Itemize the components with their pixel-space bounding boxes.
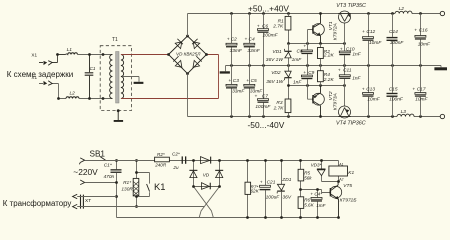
svg-text:+: + bbox=[412, 87, 415, 92]
svg-text:ZD1: ZD1 bbox=[281, 177, 291, 183]
svg-text:+: + bbox=[260, 180, 263, 185]
label R5 56k bbox=[304, 170, 312, 180]
label R6 5.6K bbox=[304, 198, 314, 208]
diode VD3* bbox=[317, 161, 326, 182]
label C17 10mF bbox=[412, 86, 428, 102]
label VT2 KT973A (vertical) bbox=[328, 91, 339, 110]
wire VD3 to relay coil node bbox=[322, 181, 339, 183]
label C4 33mF bbox=[245, 37, 261, 54]
label VD2 36V 1W bbox=[266, 70, 284, 85]
label C15 100nF bbox=[389, 86, 404, 102]
svg-text:C9: C9 bbox=[308, 70, 314, 76]
resistor R1* with X hatch bbox=[133, 161, 139, 207]
svg-text:240R: 240R bbox=[154, 162, 167, 167]
svg-text:C2: C2 bbox=[231, 37, 237, 43]
capacitor C11 bbox=[339, 66, 350, 86]
label C9 1mF bbox=[293, 70, 315, 85]
svg-text:33mF: 33mF bbox=[247, 48, 260, 54]
svg-text:XT: XT bbox=[85, 198, 91, 204]
transistor VT4 bbox=[338, 86, 350, 119]
inductor L1 bbox=[66, 53, 78, 55]
terminal output top bbox=[440, 11, 444, 15]
svg-text:2.2K: 2.2K bbox=[323, 52, 335, 58]
svg-text:К схеме задержки: К схеме задержки bbox=[7, 70, 73, 79]
svg-text:A2: A2 bbox=[338, 178, 343, 182]
svg-text:100mF: 100mF bbox=[255, 104, 271, 110]
junction dots left section bbox=[56, 53, 104, 100]
label C6 100mF bbox=[257, 23, 279, 38]
svg-text:C1*: C1* bbox=[104, 163, 112, 169]
label R7* 62K bbox=[251, 184, 260, 193]
diode VD left bbox=[189, 170, 197, 178]
svg-text:C5: C5 bbox=[251, 78, 257, 84]
wire bottom-left input to L2 bbox=[39, 84, 66, 99]
junction dots small bridge bbox=[192, 159, 221, 188]
label C11 1nF bbox=[338, 68, 362, 82]
wire 0V mid rail bbox=[226, 65, 442, 67]
capacitor C10 bbox=[339, 44, 350, 66]
svg-text:VD2: VD2 bbox=[271, 70, 281, 76]
svg-text:100mF: 100mF bbox=[263, 32, 279, 38]
svg-text:+: + bbox=[245, 38, 248, 43]
label C13.5 10mF bbox=[362, 86, 381, 102]
svg-text:+: + bbox=[362, 30, 365, 35]
wire node line positive bbox=[289, 43, 345, 45]
wire mains top bbox=[85, 160, 339, 162]
svg-text:2.7K: 2.7K bbox=[273, 105, 285, 111]
resistor R2 bbox=[318, 44, 324, 66]
svg-text:К трансформатору: К трансформатору bbox=[3, 199, 72, 208]
svg-text:62K: 62K bbox=[251, 189, 260, 194]
svg-text:+: + bbox=[340, 47, 343, 52]
svg-text:C12: C12 bbox=[366, 29, 375, 35]
svg-text:C7: C7 bbox=[262, 93, 268, 99]
zener diode VD1 bbox=[284, 44, 291, 66]
capacitor C5 bbox=[244, 66, 255, 117]
svg-text:+: + bbox=[362, 87, 365, 92]
node X1 label top bbox=[0, 0, 1, 1]
svg-text:100nF: 100nF bbox=[389, 96, 404, 102]
svg-text:-50...-40V: -50...-40V bbox=[248, 120, 285, 130]
capacitor C2 bbox=[226, 14, 237, 66]
wire top-left input to L1 bbox=[39, 55, 66, 63]
svg-text:L1: L1 bbox=[67, 47, 73, 53]
svg-text:36V: 36V bbox=[283, 194, 292, 200]
wire base node VT5 bbox=[301, 190, 330, 193]
label C5 33mF bbox=[246, 78, 263, 95]
svg-text:36V 1W: 36V 1W bbox=[266, 57, 284, 63]
transistor VT3 bbox=[338, 11, 351, 44]
transistor VT2 bbox=[308, 86, 325, 117]
transformer T1 dashed box bbox=[100, 46, 131, 111]
capacitor C14 bbox=[387, 14, 398, 66]
svg-text:+: + bbox=[303, 45, 306, 50]
label C8 1mF bbox=[292, 45, 307, 63]
label R3 2.7K bbox=[273, 100, 285, 111]
connector XT bbox=[73, 194, 205, 209]
label C10 1nF bbox=[340, 46, 362, 57]
svg-text:10mF: 10mF bbox=[415, 97, 428, 103]
ground (transformer center tap) bbox=[134, 82, 144, 84]
svg-text:130R: 130R bbox=[121, 186, 133, 192]
svg-text:1nF: 1nF bbox=[352, 51, 361, 57]
capacitor C13.5 bbox=[363, 66, 374, 117]
resistor R3 bbox=[285, 86, 291, 117]
svg-text:1mF: 1mF bbox=[316, 203, 326, 208]
ground (transformer screen) bbox=[114, 109, 123, 122]
wire bridge plus to top rail bbox=[187, 14, 189, 37]
svg-text:R2*: R2* bbox=[157, 152, 165, 157]
junction dots mid rail bbox=[230, 64, 422, 67]
svg-text:1nF: 1nF bbox=[352, 76, 361, 82]
svg-text:VD1: VD1 bbox=[272, 49, 282, 55]
svg-text:+: + bbox=[414, 29, 417, 34]
svg-text:VT4 TIP36C: VT4 TIP36C bbox=[336, 121, 366, 127]
terminal output bottom bbox=[440, 114, 444, 118]
inductor L3 output bottom bbox=[397, 113, 414, 120]
svg-text:100uF: 100uF bbox=[266, 194, 281, 200]
inductor L2 output top bbox=[395, 10, 412, 17]
bridge diode lower-left bbox=[173, 56, 182, 67]
svg-text:L2: L2 bbox=[70, 91, 76, 97]
wire +50V top rail bbox=[188, 13, 441, 15]
svg-text:+: + bbox=[257, 24, 260, 29]
label C1* 470n bbox=[104, 163, 115, 181]
svg-text:C15: C15 bbox=[389, 86, 398, 92]
svg-text:K1: K1 bbox=[348, 170, 354, 176]
svg-text:+50...+40V: +50...+40V bbox=[248, 4, 289, 14]
resistor R6 bbox=[298, 190, 304, 218]
svg-text:C3: C3 bbox=[233, 78, 239, 84]
svg-text:C1: C1 bbox=[90, 66, 96, 71]
svg-text:470n: 470n bbox=[104, 174, 115, 180]
svg-text:C16: C16 bbox=[419, 28, 428, 34]
svg-text:+: + bbox=[255, 94, 258, 99]
capacitor C17 bbox=[415, 66, 426, 117]
svg-text:+: + bbox=[246, 79, 249, 84]
bridge diode upper-right bbox=[192, 39, 200, 49]
svg-text:5.6K: 5.6K bbox=[304, 203, 314, 208]
resistor R2* bbox=[89, 157, 182, 162]
zener diode VD2 bbox=[284, 66, 291, 86]
transformer T1 secondary winding bbox=[121, 55, 124, 99]
diode VD top bbox=[201, 157, 212, 164]
svg-text:10mF: 10mF bbox=[367, 97, 380, 103]
svg-text:C11: C11 bbox=[343, 68, 352, 74]
svg-text:+: + bbox=[338, 69, 341, 74]
wire node line negative bbox=[289, 85, 345, 87]
diode VD right bbox=[215, 170, 223, 178]
label C7 100mF bbox=[255, 93, 272, 110]
wire secondary top to bridge (AC) bbox=[121, 54, 169, 56]
capacitor C1 bbox=[85, 55, 94, 99]
relay coil K1 bbox=[329, 161, 348, 182]
wire secondary bottom to bridge right vertex (AC) bbox=[121, 55, 219, 99]
svg-text:33mF: 33mF bbox=[230, 48, 243, 54]
connector mains second pin bbox=[80, 180, 116, 185]
svg-text:КТ973А: КТ973А bbox=[333, 93, 339, 110]
zener diode ZD1 bbox=[277, 161, 285, 218]
svg-text:SB1: SB1 bbox=[90, 150, 106, 159]
svg-text:R3: R3 bbox=[276, 100, 282, 106]
svg-text:C14: C14 bbox=[389, 29, 398, 35]
switch SB1 blade bbox=[100, 156, 106, 160]
svg-text:2.7K: 2.7K bbox=[272, 24, 284, 30]
svg-text:C6: C6 bbox=[262, 23, 268, 29]
svg-text:VT3 TIP35C: VT3 TIP35C bbox=[336, 3, 366, 9]
wire XT lower to bridge (diagonal) bbox=[199, 187, 219, 218]
ground (mid rail left) bbox=[220, 66, 230, 74]
svg-text:2.2K: 2.2K bbox=[323, 77, 335, 83]
bridge rectifier VD KBK25 diamond bbox=[169, 36, 207, 74]
svg-text:1mF: 1mF bbox=[292, 57, 303, 63]
resistor R5 bbox=[298, 161, 304, 190]
svg-text:~220V: ~220V bbox=[73, 167, 98, 177]
capacitor C6 bbox=[258, 14, 269, 66]
capacitor C21 bbox=[260, 161, 271, 218]
label VT5 KT972B bbox=[340, 183, 357, 203]
junction dots bottom section bbox=[246, 159, 340, 219]
svg-text:33mF: 33mF bbox=[232, 89, 245, 95]
resistor R4 bbox=[318, 66, 324, 86]
transistor VT5 bbox=[330, 182, 342, 218]
svg-text:+: + bbox=[303, 71, 306, 76]
switch SB1 input connector bbox=[79, 158, 84, 164]
label R2 2.2K bbox=[323, 49, 335, 59]
label ZD1 36V bbox=[281, 177, 292, 200]
svg-text:T1: T1 bbox=[112, 37, 118, 43]
wire secondary center tap bbox=[123, 77, 139, 82]
capacitor C15 bbox=[387, 66, 398, 117]
svg-text:C8: C8 bbox=[297, 48, 303, 54]
label C4* 1mF bbox=[310, 192, 326, 208]
capacitor C7 bbox=[258, 66, 269, 117]
label C14 100nF bbox=[389, 29, 404, 46]
capacitor C9 bbox=[301, 66, 312, 86]
svg-text:10mF: 10mF bbox=[369, 40, 382, 46]
label relay pins A1 A2 bbox=[338, 163, 343, 182]
svg-text:+: + bbox=[228, 79, 231, 84]
wire -50V bottom rail bbox=[188, 116, 441, 118]
svg-text:K1: K1 bbox=[154, 181, 165, 192]
junction dots node line positive bbox=[287, 42, 346, 45]
wire bridge minus to bottom rail bbox=[187, 74, 189, 117]
svg-text:C13: C13 bbox=[366, 86, 375, 92]
svg-text:+ C4*: + C4* bbox=[310, 192, 322, 197]
capacitor C3 bbox=[226, 66, 237, 117]
transformer T1 primary winding bbox=[110, 55, 113, 99]
inductor L2 bbox=[66, 97, 79, 99]
label R4 2.2K bbox=[323, 72, 335, 83]
svg-text:2u: 2u bbox=[172, 165, 179, 170]
wire bottom rail (relay section) bbox=[117, 217, 339, 219]
label C16 10mF bbox=[414, 28, 431, 48]
resistor R7* bbox=[245, 161, 251, 218]
junction dots node line negative bbox=[287, 84, 346, 87]
svg-text:56k: 56k bbox=[304, 176, 312, 181]
label R2* 240R bbox=[154, 152, 167, 167]
transistor VT1 bbox=[308, 14, 325, 44]
wire bridge to bottom rail (diagonal) bbox=[194, 187, 214, 218]
svg-text:A1: A1 bbox=[338, 163, 343, 167]
label R1 2.7K bbox=[272, 19, 284, 30]
svg-text:КТ972Б: КТ972Б bbox=[340, 197, 357, 203]
resistor R1 bbox=[285, 14, 291, 44]
label C12 10mF bbox=[362, 29, 382, 46]
wire L2 to transformer bbox=[79, 98, 112, 100]
label C21 100uF bbox=[260, 179, 280, 200]
capacitor C12 bbox=[363, 14, 374, 66]
svg-text:L3: L3 bbox=[401, 109, 407, 115]
svg-text:C2*: C2* bbox=[172, 151, 180, 156]
svg-text:VD: VD bbox=[203, 173, 210, 178]
svg-text:R1*: R1* bbox=[123, 180, 131, 186]
connector X1 pin 1 bbox=[44, 61, 53, 66]
svg-text:C4: C4 bbox=[249, 37, 255, 43]
capacitor C8 bbox=[301, 44, 312, 66]
label C2 33mF bbox=[227, 37, 243, 54]
bridge diode lower-right bbox=[193, 56, 202, 67]
junction dots top rail bbox=[230, 12, 422, 15]
capacitor C2* bbox=[182, 156, 194, 163]
label C2* 2u bbox=[172, 151, 180, 170]
svg-text:C17: C17 bbox=[417, 86, 426, 92]
transformer T1 core bbox=[116, 52, 119, 104]
capacitor C1* bbox=[111, 161, 122, 197]
label C3 33mF bbox=[228, 78, 245, 95]
label VD1 36V 1W bbox=[266, 49, 284, 63]
svg-text:VD КВК25Л: VD КВК25Л bbox=[176, 52, 201, 57]
svg-text:1nF: 1nF bbox=[293, 79, 302, 85]
svg-text:X1: X1 bbox=[31, 52, 37, 57]
capacitor C4 bbox=[244, 14, 255, 66]
wire L1 to transformer bbox=[78, 54, 113, 56]
connector X1 pin 2 bbox=[44, 81, 53, 86]
junction dots soft start bbox=[115, 159, 138, 208]
svg-text:КТ972А: КТ972А bbox=[333, 23, 339, 40]
wire C1* column to bottom rail bbox=[116, 197, 118, 218]
bridge diode upper-left bbox=[175, 39, 183, 49]
junction dots bottom rail bbox=[230, 115, 422, 118]
label R1* 130R bbox=[121, 180, 133, 192]
svg-text:100nF: 100nF bbox=[390, 40, 405, 46]
label VT1 KT972A (vertical) bbox=[328, 21, 339, 40]
capacitor C16 bbox=[415, 14, 426, 66]
svg-text:VD3*: VD3* bbox=[311, 162, 322, 167]
svg-text:L2: L2 bbox=[399, 6, 405, 12]
svg-text:C21: C21 bbox=[267, 179, 276, 185]
diode VD bottom bbox=[202, 183, 211, 190]
relay contact K1 bbox=[137, 173, 150, 197]
svg-text:VT5: VT5 bbox=[343, 183, 352, 189]
svg-text:10mF: 10mF bbox=[418, 41, 431, 47]
diode bridge VD columns bbox=[194, 161, 220, 187]
ground (mid rail right) bbox=[434, 66, 447, 71]
svg-text:+: + bbox=[227, 38, 230, 43]
svg-text:36V 1W: 36V 1W bbox=[266, 79, 284, 85]
capacitor C4* bbox=[311, 190, 322, 218]
